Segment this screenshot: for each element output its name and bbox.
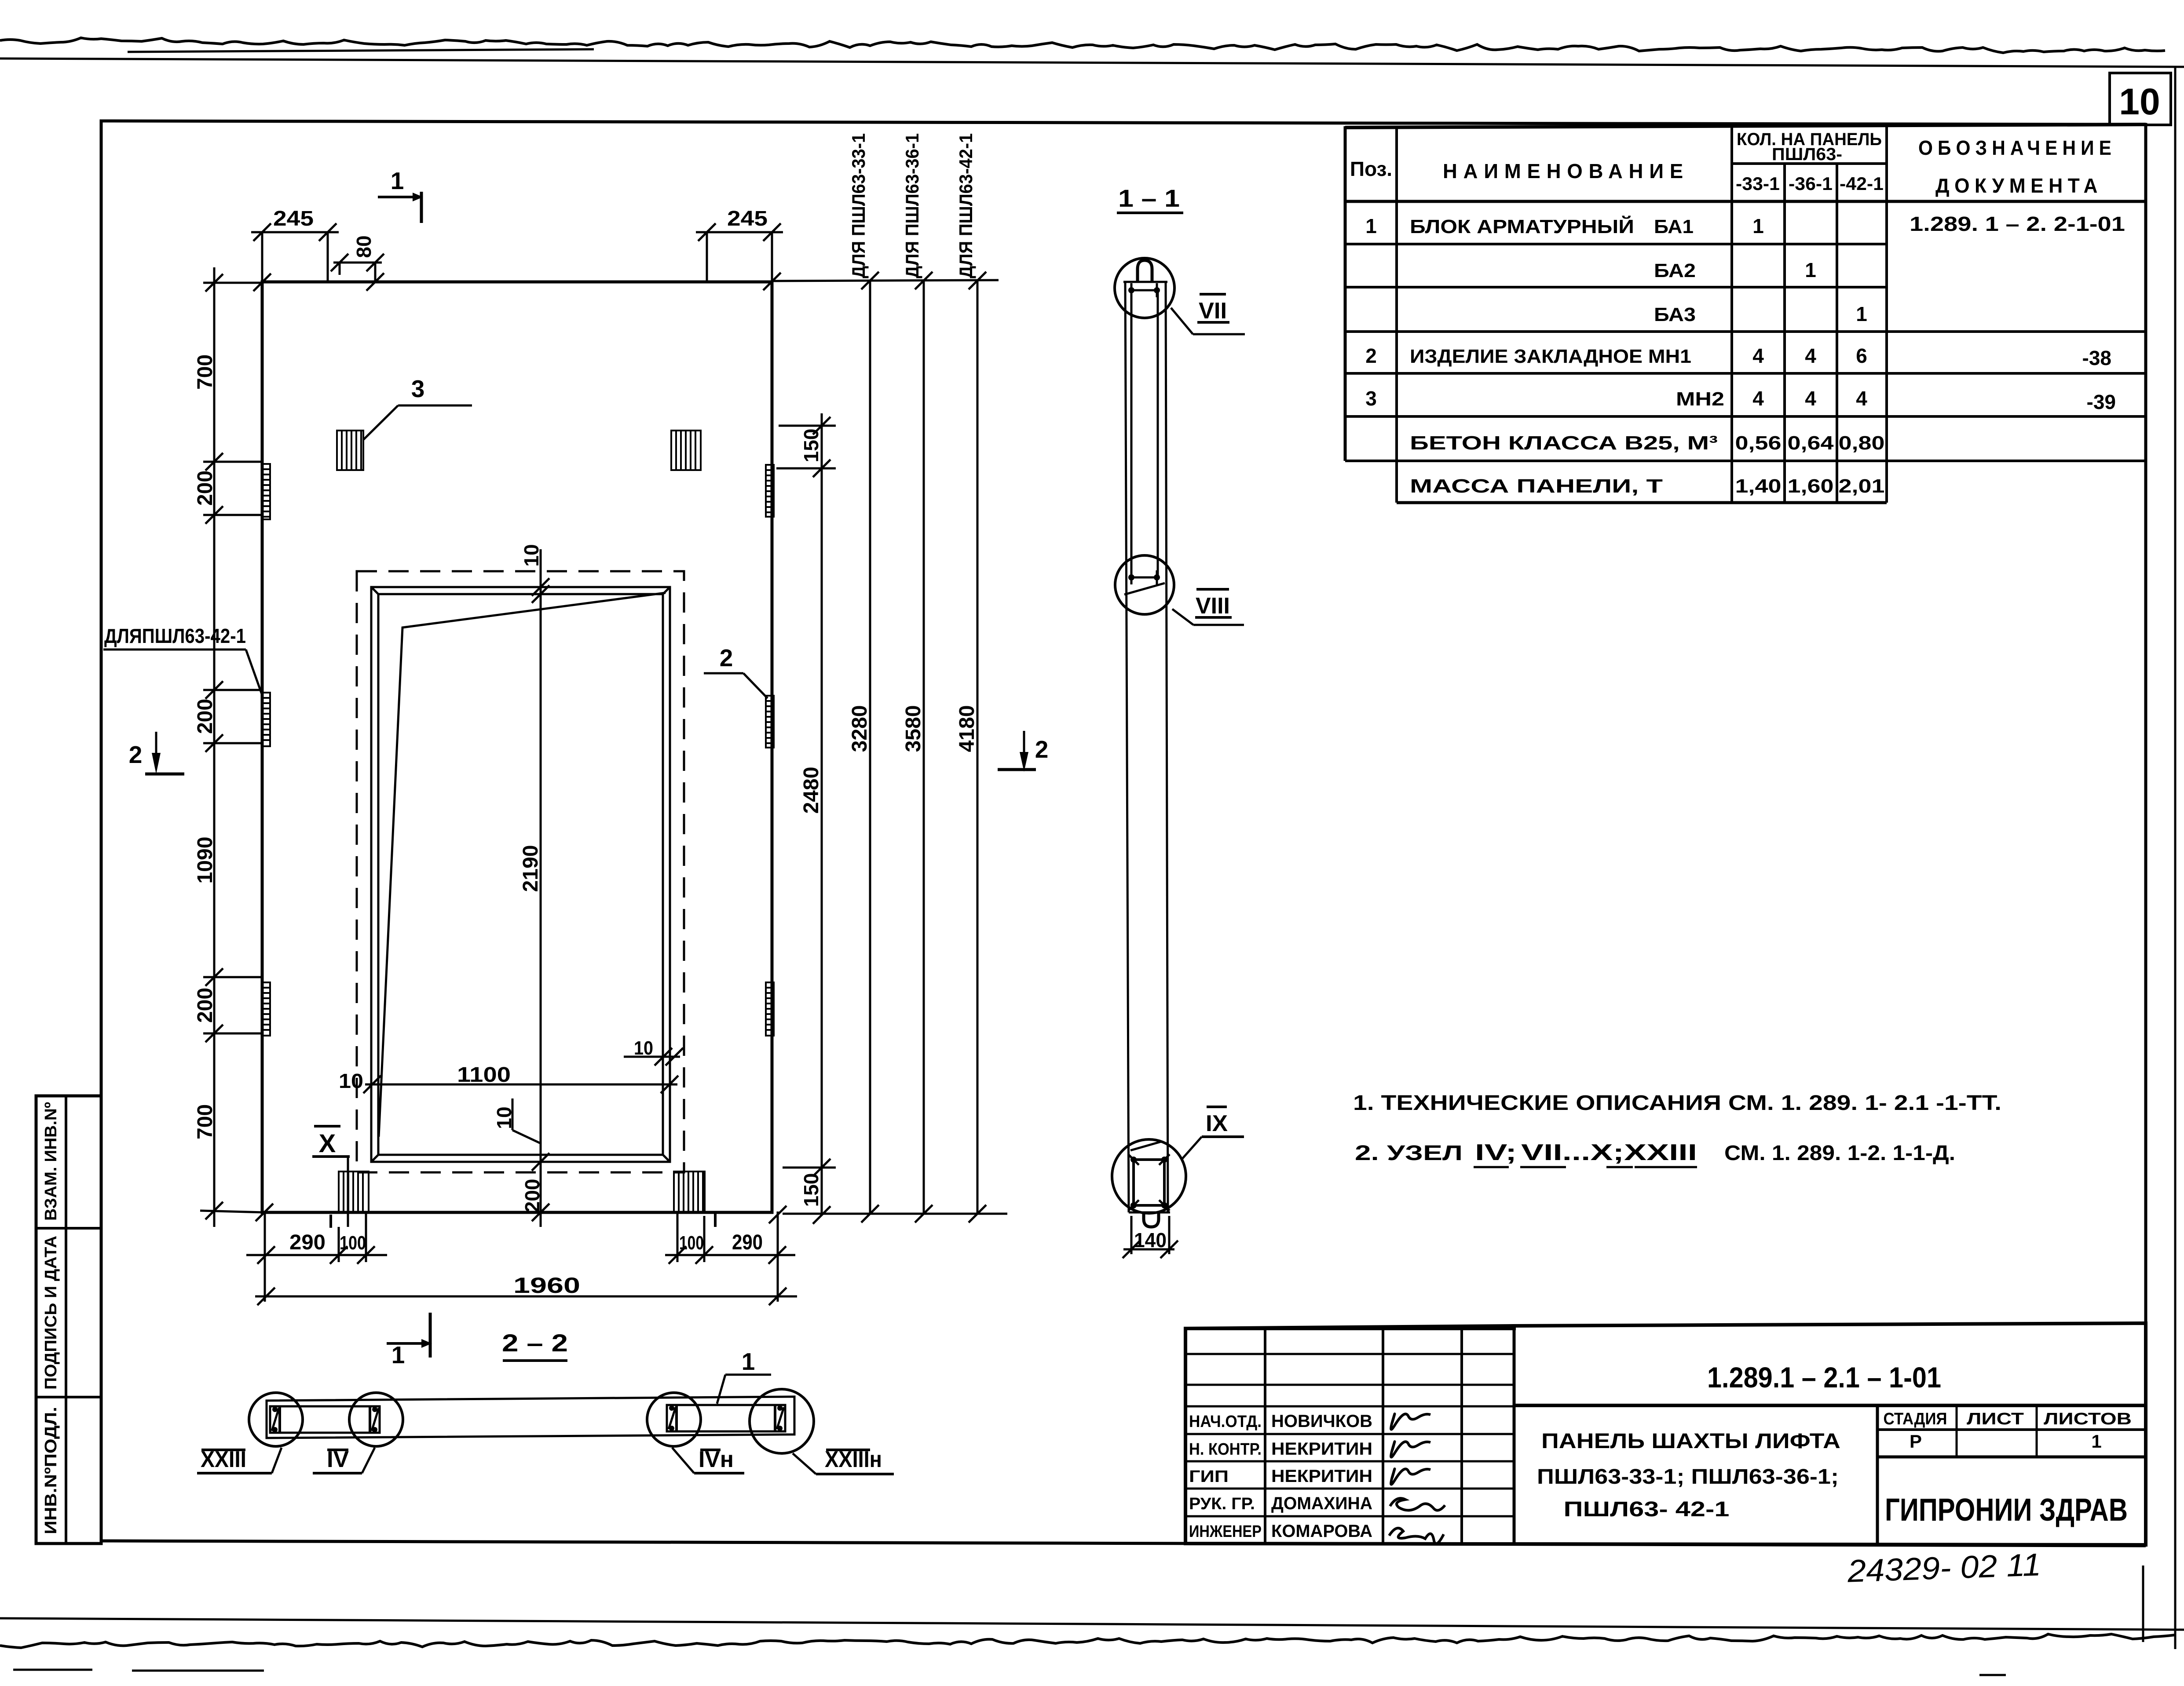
svg-text:245: 245 bbox=[727, 207, 768, 230]
svg-text:-39: -39 bbox=[2087, 390, 2116, 413]
left dim chain line bbox=[213, 267, 216, 1227]
svg-text:ЛИСТ: ЛИСТ bbox=[1967, 1410, 2024, 1428]
svg-text:4: 4 bbox=[1752, 387, 1764, 410]
section marker 1 (bottom) bbox=[387, 1342, 421, 1345]
edge embed MN right 1 bbox=[766, 465, 774, 517]
rebar block inner lines bbox=[1130, 290, 1133, 577]
svg-text:VII...X;XXIII: VII...X;XXIII bbox=[1521, 1140, 1697, 1165]
svg-text:1960: 1960 bbox=[513, 1273, 580, 1298]
dim 140 bbox=[1130, 1216, 1133, 1254]
edge embed MN right 3 bbox=[766, 982, 774, 1036]
break line in circle IX bbox=[1130, 1142, 1161, 1150]
svg-text:НЕКРИТИН: НЕКРИТИН bbox=[1271, 1467, 1372, 1486]
svg-text:4: 4 bbox=[1805, 387, 1816, 410]
svg-text:МН2: МН2 bbox=[1676, 388, 1724, 410]
dim 245 right bbox=[696, 231, 783, 234]
svg-text:1,60: 1,60 bbox=[1788, 475, 1834, 497]
svg-text:Р: Р bbox=[1910, 1431, 1922, 1452]
dim 200 bottom of opening bbox=[532, 1153, 549, 1171]
embed item 3 top-right (hatched) bbox=[671, 431, 701, 470]
svg-text:1: 1 bbox=[391, 1341, 405, 1369]
svg-text:4: 4 bbox=[1805, 344, 1816, 367]
section marker 1 (top) bbox=[378, 196, 413, 198]
svg-text:2: 2 bbox=[1035, 736, 1049, 763]
embed item 3 bottom-right (hatched) bbox=[674, 1171, 705, 1212]
detail circle XXIII bbox=[249, 1393, 303, 1446]
svg-text:100: 100 bbox=[679, 1232, 704, 1254]
svg-text:Н. КОНТР.: Н. КОНТР. bbox=[1189, 1440, 1262, 1459]
edge embed MN left 2 bbox=[262, 693, 270, 746]
break line in circle VIII bbox=[1124, 583, 1165, 595]
frame right lower stub bbox=[2142, 1566, 2144, 1642]
svg-text:1: 1 bbox=[1856, 303, 1867, 325]
svg-text:ПОДПИСЬ И ДАТА: ПОДПИСЬ И ДАТА bbox=[42, 1236, 60, 1390]
svg-text:ЛИСТОВ: ЛИСТОВ bbox=[2044, 1410, 2132, 1428]
edge embed MN right 2 bbox=[766, 696, 774, 748]
svg-text:РУК. ГР.: РУК. ГР. bbox=[1189, 1495, 1255, 1513]
svg-text:ГИПРОНИИ ЗДРАВ: ГИПРОНИИ ЗДРАВ bbox=[1885, 1493, 2128, 1528]
svg-text:24329- 02 11: 24329- 02 11 bbox=[1847, 1547, 2042, 1589]
svg-text:X: X bbox=[319, 1129, 336, 1158]
title block grid bbox=[1185, 1323, 2146, 1545]
dim 10 top of opening bbox=[532, 578, 549, 596]
left stamp boxes bbox=[36, 1096, 101, 1544]
door frame outer bbox=[371, 587, 670, 1162]
lifting loop top bbox=[1138, 260, 1152, 282]
svg-text:СТАДИЯ: СТАДИЯ bbox=[1884, 1410, 1947, 1428]
svg-text:1: 1 bbox=[2091, 1431, 2101, 1452]
detail circle IV bbox=[349, 1393, 403, 1446]
embed item 3 bottom-left (hatched) bbox=[339, 1171, 369, 1212]
svg-text:СМ. 1. 289. 1-2. 1-1-Д.: СМ. 1. 289. 1-2. 1-1-Д. bbox=[1724, 1142, 1955, 1165]
svg-text:1.289.1 – 2.1 – 1-01: 1.289.1 – 2.1 – 1-01 bbox=[1707, 1361, 1941, 1394]
svg-text:БЛОК АРМАТУРНЫЙ: БЛОК АРМАТУРНЫЙ bbox=[1410, 215, 1634, 237]
svg-text:200: 200 bbox=[194, 471, 217, 506]
svg-text:1.289. 1 – 2. 2-1-01: 1.289. 1 – 2. 2-1-01 bbox=[1910, 212, 2125, 235]
svg-text:10: 10 bbox=[339, 1069, 363, 1092]
dim 10 right of opening bbox=[624, 1056, 680, 1058]
svg-text:100: 100 bbox=[340, 1232, 366, 1254]
svg-text:1090: 1090 bbox=[194, 837, 217, 884]
svg-text:БА3: БА3 bbox=[1654, 304, 1696, 325]
svg-text:0,56: 0,56 bbox=[1735, 432, 1782, 454]
page number box bbox=[2110, 73, 2171, 125]
svg-text:НАЧ.ОТД.: НАЧ.ОТД. bbox=[1189, 1412, 1262, 1431]
svg-text:IV;: IV; bbox=[1475, 1140, 1517, 1165]
svg-text:ВЗАМ. ИНВ.Nº: ВЗАМ. ИНВ.Nº bbox=[42, 1102, 60, 1221]
svg-text:НАИМЕНОВАНИЕ: НАИМЕНОВАНИЕ bbox=[1443, 160, 1689, 182]
svg-text:1: 1 bbox=[1805, 259, 1816, 281]
svg-text:4180: 4180 bbox=[955, 705, 979, 752]
dim 80 bbox=[333, 262, 382, 264]
svg-text:2 – 2: 2 – 2 bbox=[502, 1329, 568, 1357]
parts table grid bbox=[1345, 124, 2146, 128]
svg-text:ДОКУМЕНТА: ДОКУМЕНТА bbox=[1935, 174, 2103, 197]
svg-text:ИЗДЕЛИЕ ЗАКЛАДНОЕ МН1: ИЗДЕЛИЕ ЗАКЛАДНОЕ МН1 bbox=[1410, 346, 1691, 367]
svg-text:НЕКРИТИН: НЕКРИТИН bbox=[1271, 1439, 1372, 1459]
edge embed MN left 3 bbox=[262, 982, 270, 1036]
door frame inner bbox=[378, 594, 663, 1155]
dim 245 left bbox=[251, 231, 339, 234]
anchor block in circle IX bbox=[1134, 1160, 1164, 1205]
svg-text:-42-1: -42-1 bbox=[1840, 173, 1884, 194]
svg-text:VIII: VIII bbox=[1196, 593, 1230, 619]
svg-text:200: 200 bbox=[521, 1179, 544, 1213]
svg-text:ПАНЕЛЬ ШАХТЫ ЛИФТА: ПАНЕЛЬ ШАХТЫ ЛИФТА bbox=[1541, 1430, 1840, 1453]
detail circle IVn bbox=[647, 1393, 701, 1446]
svg-text:1: 1 bbox=[391, 167, 404, 194]
drawing frame bbox=[101, 121, 2146, 1545]
detail circle VIII bbox=[1115, 555, 1174, 614]
label VIII bbox=[1172, 609, 1193, 625]
svg-text:1: 1 bbox=[742, 1348, 755, 1375]
top extension line bbox=[772, 280, 999, 281]
dim 1960 bbox=[255, 1296, 797, 1298]
dim line 150/2480/150 bbox=[821, 413, 823, 1215]
svg-text:VII: VII bbox=[1199, 298, 1227, 324]
svg-text:0,64: 0,64 bbox=[1788, 432, 1834, 454]
edge embed MN left 1 bbox=[262, 464, 270, 519]
svg-text:ДЛЯ ПШЛ63-42-1: ДЛЯ ПШЛ63-42-1 bbox=[955, 133, 976, 278]
detail circle IX bbox=[1112, 1139, 1186, 1213]
svg-text:3: 3 bbox=[411, 375, 425, 402]
svg-text:700: 700 bbox=[194, 354, 217, 390]
svg-text:10: 10 bbox=[634, 1037, 653, 1059]
svg-text:3580: 3580 bbox=[902, 705, 925, 752]
svg-text:ГИП: ГИП bbox=[1189, 1467, 1229, 1486]
detail circle VII bbox=[1115, 258, 1174, 318]
svg-text:6: 6 bbox=[1856, 344, 1867, 367]
svg-text:КОМАРОВА: КОМАРОВА bbox=[1271, 1522, 1372, 1541]
svg-text:1. ТЕХНИЧЕСКИЕ ОПИСАНИЯ СМ.: 1. ТЕХНИЧЕСКИЕ ОПИСАНИЯ СМ. 1. 289. 1- 2… bbox=[1353, 1091, 2001, 1115]
rebar block anchor dots bbox=[1128, 287, 1134, 293]
door frame corner miters bbox=[371, 587, 379, 595]
frame bottom line bbox=[101, 1541, 2146, 1546]
embedded block left (2-2) bbox=[270, 1406, 380, 1433]
top page line bbox=[0, 58, 2184, 67]
svg-text:3: 3 bbox=[1365, 387, 1377, 410]
svg-text:1 – 1: 1 – 1 bbox=[1118, 184, 1180, 212]
svg-text:10: 10 bbox=[520, 544, 543, 566]
svg-text:1,40: 1,40 bbox=[1735, 475, 1782, 497]
svg-text:1: 1 bbox=[1752, 215, 1764, 237]
corner ticks bbox=[253, 274, 271, 291]
svg-text:2190: 2190 bbox=[519, 845, 542, 892]
svg-text:ПШЛ63- 42-1: ПШЛ63- 42-1 bbox=[1564, 1498, 1730, 1521]
svg-text:ПШЛ63-: ПШЛ63- bbox=[1772, 145, 1842, 164]
svg-text:245: 245 bbox=[273, 207, 314, 230]
section marker 2 (left) bbox=[155, 732, 157, 757]
torn paper top edge bbox=[0, 38, 2165, 53]
svg-text:4: 4 bbox=[1752, 344, 1764, 367]
signatures (handwritten) bbox=[1391, 1414, 1430, 1429]
svg-text:290: 290 bbox=[732, 1231, 763, 1254]
left chain extension lines bbox=[203, 282, 262, 284]
svg-text:1: 1 bbox=[1365, 215, 1377, 237]
dashed opening rectangle bbox=[357, 571, 684, 1172]
svg-text:10: 10 bbox=[2119, 81, 2160, 122]
detail circle XXIIIn bbox=[750, 1389, 814, 1453]
section 2-2 panel bar bbox=[267, 1397, 794, 1438]
panel height dim lines 3280/3580/4180 bbox=[869, 280, 871, 1214]
svg-text:БА2: БА2 bbox=[1654, 260, 1696, 281]
bottom dim line 290/100 bbox=[665, 1254, 795, 1256]
section marker 2 (right) bbox=[1023, 731, 1025, 756]
svg-text:БЕТОН КЛАССА В25, М³: БЕТОН КЛАССА В25, М³ bbox=[1410, 432, 1718, 454]
embedded block right (2-2) bbox=[667, 1405, 785, 1431]
handwritten doc number bbox=[1847, 1547, 2042, 1589]
bottom extension line bbox=[783, 1213, 1007, 1215]
bottom page line bbox=[0, 1618, 2184, 1630]
section 1-1 panel bar bbox=[1123, 281, 1167, 283]
svg-text:-33-1: -33-1 bbox=[1736, 173, 1780, 194]
svg-text:ИНЖЕНЕР: ИНЖЕНЕР bbox=[1189, 1522, 1262, 1541]
svg-text:НОВИЧКОВ: НОВИЧКОВ bbox=[1271, 1412, 1372, 1431]
svg-text:200: 200 bbox=[194, 988, 217, 1023]
svg-text:ДЛЯ ПШЛ63-33-1: ДЛЯ ПШЛ63-33-1 bbox=[848, 133, 869, 278]
door leaf swing lines bbox=[379, 593, 666, 1137]
svg-text:ИНВ.NºПОДЛ.: ИНВ.NºПОДЛ. bbox=[42, 1407, 60, 1534]
svg-text:1100: 1100 bbox=[457, 1063, 511, 1087]
label VII bbox=[1171, 308, 1193, 334]
svg-text:290: 290 bbox=[289, 1231, 326, 1254]
svg-text:ДОМАХИНА: ДОМАХИНА bbox=[1271, 1494, 1372, 1513]
svg-text:IX: IX bbox=[1206, 1111, 1228, 1136]
svg-text:2,01: 2,01 bbox=[1839, 475, 1885, 497]
panel outline (plan) bbox=[262, 282, 772, 1212]
svg-text:-36-1: -36-1 bbox=[1789, 173, 1833, 194]
svg-text:2: 2 bbox=[720, 644, 733, 671]
centre line of opening bbox=[540, 549, 542, 1227]
svg-text:140: 140 bbox=[1134, 1229, 1167, 1252]
svg-text:700: 700 bbox=[194, 1104, 217, 1139]
svg-text:БА1: БА1 bbox=[1654, 216, 1694, 237]
embed item 3 top-left (hatched) bbox=[337, 431, 363, 470]
svg-text:МАССА ПАНЕЛИ, Т: МАССА ПАНЕЛИ, Т bbox=[1410, 475, 1663, 497]
svg-text:3280: 3280 bbox=[848, 705, 871, 752]
svg-text:2. УЗЕЛ: 2. УЗЕЛ bbox=[1355, 1142, 1463, 1165]
svg-text:0,80: 0,80 bbox=[1839, 432, 1885, 454]
svg-text:4: 4 bbox=[1856, 387, 1867, 410]
torn paper bottom edge bbox=[0, 1634, 2175, 1648]
svg-text:ПШЛ63-33-1; ПШЛ63-36-1;: ПШЛ63-33-1; ПШЛ63-36-1; bbox=[1537, 1465, 1839, 1489]
bottom small dashes bbox=[13, 1669, 92, 1671]
svg-text:ДЛЯ ПШЛ63-36-1: ДЛЯ ПШЛ63-36-1 bbox=[902, 133, 922, 278]
bottom loop bbox=[1144, 1212, 1159, 1227]
svg-text:150: 150 bbox=[800, 429, 823, 463]
svg-text:2: 2 bbox=[1365, 344, 1377, 367]
bottom extension lines bbox=[264, 1212, 266, 1302]
svg-text:ДЛЯПШЛ63-42-1: ДЛЯПШЛ63-42-1 bbox=[104, 624, 246, 647]
svg-text:Поз.: Поз. bbox=[1350, 157, 1392, 180]
dim 1100 bbox=[365, 1084, 677, 1086]
svg-text:150: 150 bbox=[800, 1173, 823, 1207]
svg-text:80: 80 bbox=[352, 235, 375, 258]
svg-text:ОБОЗНАЧЕНИЕ: ОБОЗНАЧЕНИЕ bbox=[1918, 136, 2116, 159]
svg-text:2480: 2480 bbox=[800, 767, 823, 814]
svg-text:-38: -38 bbox=[2082, 347, 2111, 369]
svg-text:200: 200 bbox=[194, 699, 217, 734]
page right edge bbox=[2174, 67, 2177, 1649]
svg-text:2: 2 bbox=[129, 741, 143, 768]
